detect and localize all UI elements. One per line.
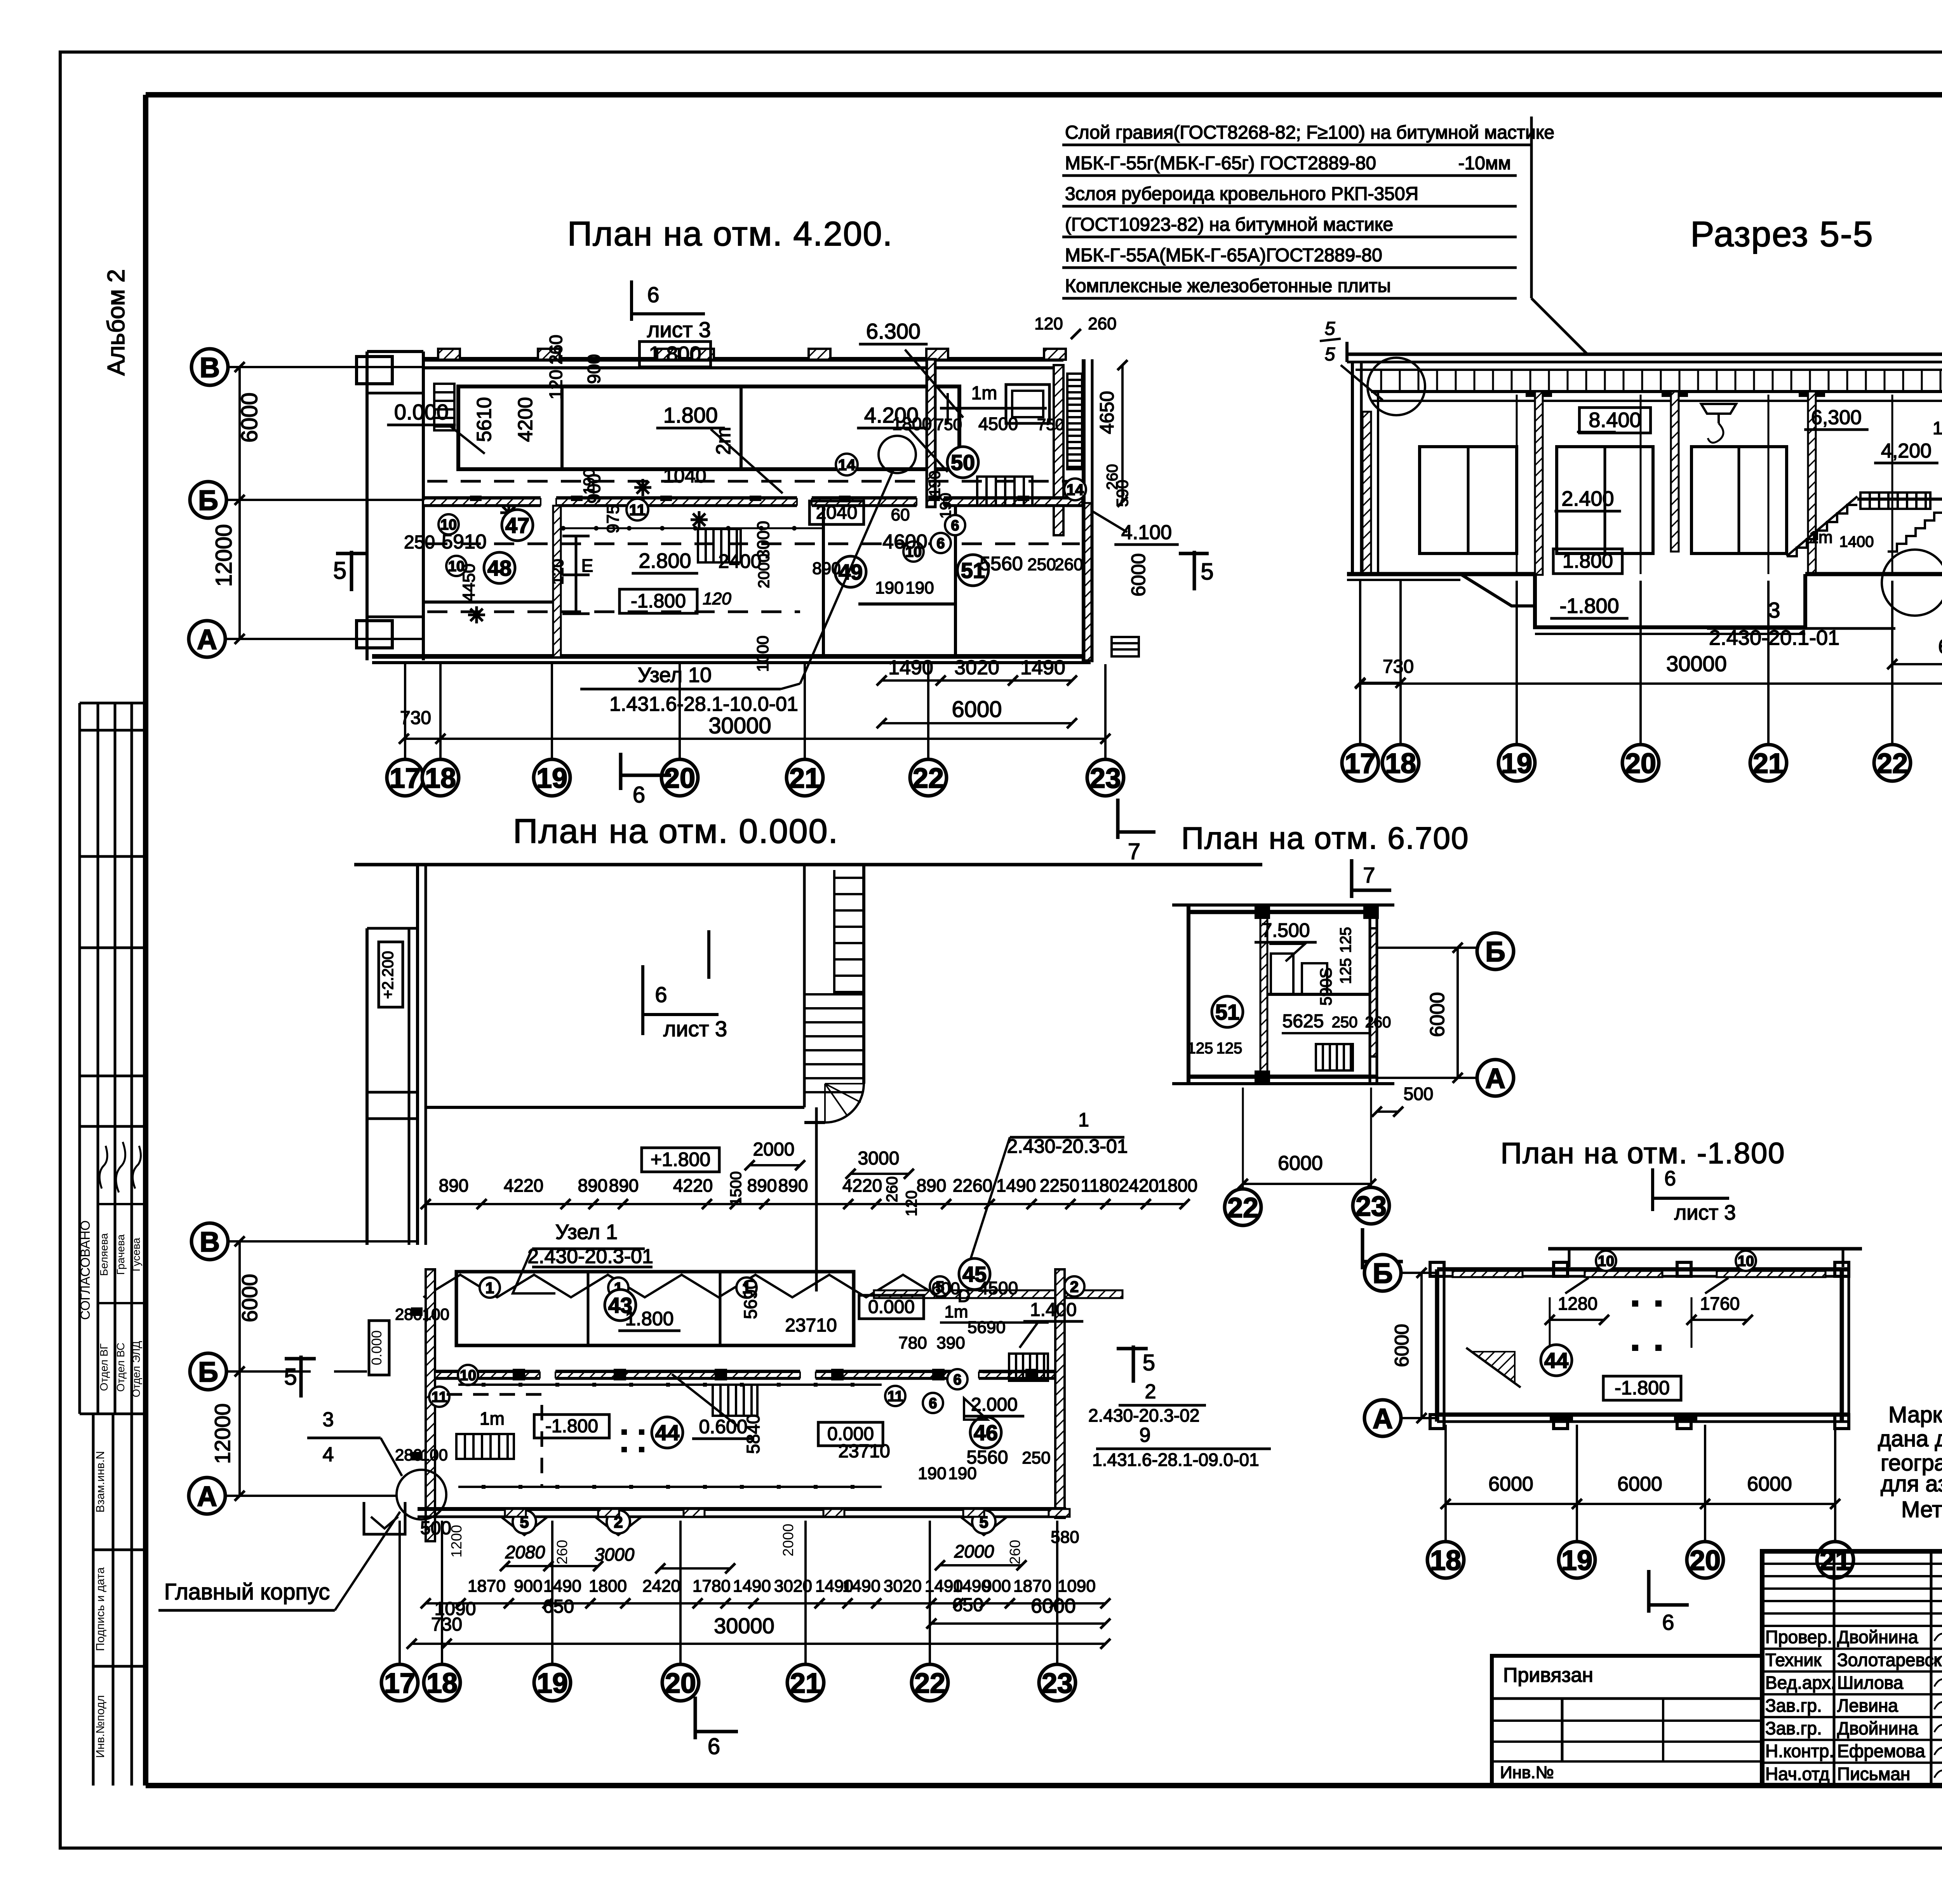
plan 0.000 grid circles (381, 1521, 1075, 1701)
svg-text:12000: 12000 (211, 524, 237, 587)
svg-text:1200: 1200 (449, 1525, 465, 1558)
svg-text:600: 600 (931, 1279, 960, 1298)
plan 4.200 left grid circles (189, 349, 423, 657)
svg-text:4200: 4200 (514, 397, 537, 442)
svg-text:1000: 1000 (753, 635, 772, 672)
svg-text:2.430-20.3-01: 2.430-20.3-01 (527, 1245, 653, 1268)
left stamp lower cells Взам/Подпись/Инв (93, 1414, 146, 1786)
title block left signature table (1762, 1551, 1942, 1786)
svg-text:Н.контр.: Н.контр. (1765, 1741, 1834, 1761)
svg-text:Золотаревская: Золотаревская (1837, 1650, 1942, 1670)
plan 4.200 dotted handrail line (555, 526, 823, 531)
plan -1.800 drawing (1364, 1167, 1862, 1634)
plan 0.000 tank outline (354, 865, 1262, 1245)
svg-text:1490: 1490 (842, 1577, 881, 1596)
svg-text:Б: Б (1373, 1258, 1393, 1289)
svg-text:500: 500 (1404, 1084, 1434, 1104)
svg-text:6: 6 (655, 982, 667, 1007)
svg-text:Комплексные железобетонные пли: Комплексные железобетонные плиты (1065, 276, 1391, 296)
plan 4.200 interior wall right bay (1054, 365, 1063, 535)
svg-text:260: 260 (1055, 555, 1083, 574)
svg-text:5690: 5690 (740, 1279, 760, 1319)
plan 4.200 section mark 5 right (1179, 551, 1214, 590)
svg-text:6.300: 6.300 (866, 319, 921, 343)
svg-text:4220: 4220 (673, 1175, 713, 1196)
svg-text:23710: 23710 (785, 1315, 837, 1336)
plan 6.700 section mark 7 bottom (1363, 1228, 1403, 1291)
plan 4.200 sheet mark лист 3 top (632, 280, 711, 342)
svg-text:План на отм. -1.800: План на отм. -1.800 (1500, 1137, 1785, 1170)
svg-text:6: 6 (929, 1396, 937, 1412)
svg-text:730: 730 (431, 1614, 462, 1635)
svg-text:Главный корпус: Главный корпус (164, 1579, 330, 1605)
plan 4.200 section mark 6 bottom (621, 753, 671, 808)
svg-text:6000: 6000 (237, 392, 262, 442)
svg-text:7: 7 (1363, 863, 1375, 887)
svg-text:Привязан: Привязан (1503, 1664, 1593, 1686)
svg-text:250: 250 (1027, 555, 1056, 574)
svg-text:4.100: 4.100 (1121, 521, 1172, 544)
svg-text:2000: 2000 (755, 554, 773, 588)
svg-text:1.800: 1.800 (1563, 550, 1613, 573)
svg-text:890: 890 (812, 559, 840, 578)
plan -1.800 bottom dims (1441, 1473, 1840, 1509)
plan 0.000 drawing (158, 865, 1271, 1759)
svg-text:100: 100 (422, 1305, 449, 1323)
svg-text:А: А (197, 624, 217, 655)
svg-text:5: 5 (1325, 344, 1335, 365)
plan 4.200 stair ladder right bay (1067, 374, 1082, 469)
svg-text:3слоя рубероида кровельного РК: 3слоя рубероида кровельного РКП-350Я (1065, 184, 1418, 204)
plan 0.000 node 3/4 and Главный корпус (158, 1408, 446, 1610)
svg-text:2000: 2000 (780, 1524, 797, 1557)
svg-text:5610: 5610 (473, 397, 496, 442)
svg-text:1490: 1490 (888, 656, 933, 679)
svg-text:Б: Б (198, 1357, 218, 1388)
svg-text:19: 19 (1501, 748, 1532, 779)
plan 4.200 hatched partition x1430 (553, 506, 561, 657)
svg-text:900: 900 (982, 1577, 1011, 1596)
svg-text:3: 3 (323, 1408, 334, 1431)
svg-text:Левина: Левина (1837, 1695, 1898, 1716)
plan 0.000 node flag Узел 1 (513, 1220, 653, 1293)
svg-text:46: 46 (974, 1420, 998, 1445)
svg-text:-1.800: -1.800 (631, 590, 686, 612)
plan 4.200 left annex (365, 352, 369, 660)
svg-text:+1.800: +1.800 (651, 1149, 710, 1170)
plan 6.700 drawing (1172, 859, 1514, 1291)
svg-text:190: 190 (875, 578, 903, 597)
svg-text:260: 260 (546, 335, 566, 365)
svg-text:22: 22 (1227, 1192, 1258, 1224)
svg-text:4: 4 (323, 1443, 334, 1466)
svg-text:Шилова: Шилова (1837, 1673, 1904, 1693)
svg-text:30000: 30000 (708, 713, 771, 738)
svg-text:2420: 2420 (1119, 1175, 1159, 1196)
svg-text:730: 730 (1383, 656, 1414, 677)
section 5-5 level labels (1550, 406, 1942, 618)
svg-text:Письман: Письман (1837, 1764, 1910, 1784)
svg-text:1490: 1490 (543, 1577, 581, 1596)
svg-text:А: А (197, 1481, 217, 1512)
svg-text:22: 22 (914, 1668, 945, 1699)
svg-text:2.800: 2.800 (639, 549, 691, 573)
plan 4.200 section mark 5 left (333, 551, 367, 591)
svg-text:260: 260 (1088, 314, 1116, 333)
svg-text:7.500: 7.500 (1261, 919, 1310, 941)
svg-text:Отдел ВС: Отдел ВС (115, 1343, 127, 1392)
plan 4.200 stairs and piers (434, 384, 454, 430)
svg-text:Марка кровельной мастики в: Марка кровельной мастики в скобках (см. … (1888, 1402, 1942, 1427)
svg-text:1.800: 1.800 (625, 1308, 673, 1330)
svg-text:Беляева: Беляева (98, 1233, 110, 1276)
plan -1.800 grid circles (1427, 1425, 1853, 1578)
svg-text:4220: 4220 (842, 1175, 882, 1196)
svg-text:100: 100 (421, 1446, 448, 1464)
svg-text:780: 780 (898, 1333, 927, 1352)
svg-text:Нач.отд: Нач.отд (1765, 1764, 1830, 1784)
svg-text:19: 19 (1561, 1545, 1592, 1576)
svg-text:50: 50 (951, 450, 975, 475)
svg-text:Б: Б (198, 485, 218, 516)
plan 0.000 room 44 floor (447, 1374, 890, 1489)
svg-text:1m: 1m (944, 1302, 968, 1321)
svg-text:21: 21 (789, 763, 820, 794)
svg-text:6: 6 (633, 782, 645, 808)
section 5-5 ceiling (1371, 390, 1942, 393)
svg-text:580: 580 (1051, 1528, 1079, 1547)
svg-text:6: 6 (953, 1372, 961, 1388)
section 5-5 cut mark 5/5 (1320, 318, 1383, 400)
svg-text:6: 6 (708, 1734, 720, 1759)
section 5-5 grid circles (1342, 395, 1942, 781)
svg-text:260: 260 (554, 1540, 571, 1564)
svg-text:План на отм. 0.000.: План на отм. 0.000. (513, 812, 839, 850)
svg-text:5690: 5690 (968, 1318, 1006, 1337)
svg-text:5625: 5625 (1282, 1011, 1324, 1032)
svg-text:1m: 1m (971, 383, 997, 404)
svg-text:1.431.6-28.1-10.0-01: 1.431.6-28.1-10.0-01 (609, 693, 798, 715)
svg-text:-1.800: -1.800 (545, 1416, 598, 1436)
svg-text:2250: 2250 (1040, 1175, 1079, 1196)
svg-text:2m: 2m (712, 427, 735, 455)
svg-text:Взам.инв.N: Взам.инв.N (94, 1451, 107, 1513)
plan -1.800 top rail line (1548, 1249, 1862, 1267)
svg-text:Отдел ЭЛД: Отдел ЭЛД (130, 1341, 142, 1397)
svg-text:4500: 4500 (978, 1278, 1018, 1298)
svg-text:6000: 6000 (1747, 1473, 1792, 1495)
svg-text:30000: 30000 (1666, 651, 1727, 676)
plan -1.800 interior labels (1466, 1293, 1753, 1400)
svg-text:0.000: 0.000 (868, 1297, 915, 1317)
small table Привязан (1492, 1656, 1762, 1786)
svg-text:+2.200: +2.200 (379, 951, 397, 999)
svg-text:5: 5 (284, 1364, 297, 1390)
plan 0.000 bottom wall piers (501, 1509, 1070, 1535)
svg-text:2: 2 (1145, 1380, 1156, 1403)
svg-text:1490: 1490 (733, 1577, 771, 1596)
plan 4.200 lamp symbols (468, 479, 708, 623)
svg-text:590S: 590S (1317, 968, 1335, 1006)
svg-text:0.000: 0.000 (369, 1330, 385, 1365)
svg-text:6000: 6000 (1278, 1152, 1323, 1175)
svg-text:190: 190 (918, 1464, 946, 1483)
svg-text:7: 7 (1128, 839, 1140, 864)
svg-text:3000: 3000 (858, 1148, 900, 1169)
svg-text:0.600: 0.600 (699, 1416, 747, 1438)
svg-text:14: 14 (1067, 481, 1084, 498)
svg-text:30000: 30000 (714, 1613, 774, 1638)
plan 6.700 right grid circles (1377, 933, 1514, 1096)
svg-text:11: 11 (629, 501, 646, 519)
svg-text:975: 975 (604, 505, 623, 533)
svg-text:17: 17 (384, 1668, 415, 1699)
svg-text:А: А (1485, 1063, 1505, 1094)
plan -1.800 sheet mark лист 3 (1653, 1167, 1736, 1224)
svg-text:250: 250 (404, 532, 435, 553)
svg-text:17: 17 (1345, 748, 1376, 779)
svg-text:6000: 6000 (1391, 1324, 1413, 1367)
svg-text:Подпись и дата: Подпись и дата (94, 1567, 107, 1651)
svg-text:125: 125 (1337, 927, 1354, 953)
svg-text:44: 44 (1544, 1348, 1568, 1373)
svg-text:2260: 2260 (953, 1175, 992, 1196)
plan 0.000 corridor wall (429, 1365, 1055, 1413)
svg-text:План на отм. 4.200.: План на отм. 4.200. (567, 214, 893, 253)
plan 0.000 tank ladder (804, 870, 864, 1123)
svg-text:18: 18 (425, 763, 456, 794)
svg-text:190: 190 (937, 493, 954, 519)
svg-text:4600: 4600 (882, 531, 927, 553)
svg-text:1180: 1180 (1081, 1175, 1119, 1196)
svg-text:лист 3: лист 3 (647, 317, 711, 342)
svg-text:22: 22 (913, 763, 944, 794)
svg-text:Инв.№подл: Инв.№подл (94, 1695, 107, 1758)
section 5-5 doors (1420, 447, 1517, 553)
svg-text:2080: 2080 (505, 1542, 545, 1562)
svg-text:Вед.арх.: Вед.арх. (1765, 1673, 1836, 1693)
svg-text:1400: 1400 (1839, 533, 1874, 550)
svg-text:10: 10 (460, 1368, 476, 1384)
section 5-5 bottom dims (1355, 635, 1942, 689)
plan 4.200 room number circles (439, 447, 1086, 587)
svg-text:190: 190 (905, 578, 934, 597)
svg-text:9: 9 (1140, 1424, 1151, 1446)
section 5-5 roof (1347, 353, 1942, 356)
svg-text:1m: 1m (480, 1408, 505, 1429)
svg-text:1800: 1800 (1158, 1175, 1197, 1196)
svg-text:дана для районов строительс: дана для районов строительства, располож… (1878, 1426, 1942, 1451)
plan 4.200 partition x2480 (927, 359, 935, 507)
svg-text:730: 730 (400, 708, 431, 728)
plan 0.000 section mark 6 bottom (695, 1697, 738, 1759)
svg-text:6: 6 (1662, 1610, 1674, 1634)
svg-text:4650: 4650 (1096, 391, 1118, 434)
plan 0.000 level label +1.800 (642, 1107, 816, 1291)
svg-text:49: 49 (839, 560, 863, 584)
svg-text:Отдел ВГ: Отдел ВГ (98, 1344, 110, 1391)
svg-text:890: 890 (609, 1175, 639, 1196)
plan 4.200 corridor wall (423, 498, 1082, 506)
plan 0.000 main walls (418, 1269, 1066, 1541)
svg-text:6: 6 (936, 536, 945, 552)
left stamp section СОГЛАСОВАНО (78, 1126, 146, 1414)
svg-text:для азиатской части СССР.: для азиатской части СССР. (1881, 1471, 1942, 1497)
svg-text:4,200: 4,200 (1881, 440, 1932, 462)
svg-text:В: В (200, 1227, 220, 1258)
section 5-5 node circle top-left (1368, 358, 1425, 415)
svg-text:890: 890 (439, 1175, 469, 1196)
plan 0.000 bottom small dims (420, 1518, 1079, 1573)
note about roofing mastic (1878, 1402, 1942, 1497)
svg-text:1490: 1490 (1020, 656, 1065, 679)
svg-text:60: 60 (891, 505, 910, 524)
svg-text:20: 20 (665, 1668, 696, 1699)
plan 4.200 upper rooms (458, 386, 959, 469)
svg-text:1.800: 1.800 (649, 342, 701, 365)
svg-text:120: 120 (550, 559, 567, 585)
svg-text:47: 47 (505, 513, 529, 538)
svg-text:190: 190 (948, 1464, 976, 1483)
title block (1762, 1551, 1942, 1786)
svg-text:11: 11 (887, 1389, 903, 1405)
svg-text:6000: 6000 (1938, 635, 1942, 658)
svg-text:1280: 1280 (1558, 1293, 1597, 1314)
svg-text:190: 190 (581, 469, 598, 495)
svg-text:1870: 1870 (468, 1577, 506, 1596)
plan 4.200 dim row bottom (399, 656, 1110, 744)
svg-text:6: 6 (1664, 1167, 1676, 1190)
svg-text:3020: 3020 (884, 1577, 922, 1596)
svg-text:3000: 3000 (754, 521, 773, 559)
plan 0.000 top right leaders (727, 1109, 1128, 1282)
svg-text:А: А (1373, 1403, 1393, 1434)
svg-text:1760: 1760 (1700, 1293, 1740, 1314)
svg-text:-1.800: -1.800 (1559, 594, 1619, 618)
svg-text:21: 21 (1753, 748, 1784, 779)
plan 0.000 left wall labels (364, 1305, 449, 1534)
svg-text:650: 650 (952, 1595, 983, 1615)
svg-text:лист 3: лист 3 (663, 1016, 727, 1041)
svg-text:20: 20 (664, 763, 695, 794)
svg-text:0.000: 0.000 (394, 400, 449, 424)
svg-text:900: 900 (514, 1577, 542, 1596)
svg-text:Ефремова: Ефремова (1837, 1741, 1925, 1761)
section 5-5 drawing (1320, 299, 1942, 781)
svg-text:12000: 12000 (210, 1403, 235, 1464)
svg-text:1040: 1040 (663, 465, 706, 487)
svg-text:4450: 4450 (459, 564, 479, 602)
section 5-5 left wall (1351, 362, 1354, 575)
svg-text:-1.800: -1.800 (1615, 1377, 1670, 1399)
svg-text:План на отм. 6.700: План на отм. 6.700 (1182, 821, 1469, 855)
left margin stamp strip upper cells (80, 703, 146, 1126)
svg-text:14: 14 (838, 456, 856, 473)
svg-text:Узел 1: Узел 1 (555, 1220, 618, 1244)
svg-text:20: 20 (1625, 748, 1656, 779)
svg-text:Альбом 2: Альбом 2 (103, 269, 130, 376)
svg-text:20: 20 (1690, 1545, 1721, 1576)
svg-text:6: 6 (951, 518, 959, 534)
svg-text:19: 19 (536, 763, 567, 794)
plan 0.000 sawtooth canopy top wall (423, 1275, 1122, 1306)
plan 4.200 section mark 7 bottom right (1118, 799, 1155, 864)
plan 4.200 right wall (1082, 359, 1086, 662)
svg-text:СОГЛАСОВАНО: СОГЛАСОВАНО (78, 1220, 93, 1320)
svg-text:6000: 6000 (1617, 1473, 1662, 1495)
svg-text:48: 48 (487, 556, 512, 580)
section 5-5 crane hook (1701, 404, 1736, 443)
svg-text:Е: Е (581, 555, 593, 576)
svg-text:6000: 6000 (1128, 553, 1149, 596)
svg-text:5910: 5910 (442, 531, 487, 553)
plan 4.200 labels (387, 314, 1179, 672)
svg-text:1m: 1m (1933, 418, 1942, 438)
svg-text:890: 890 (917, 1175, 947, 1196)
svg-text:2.430-20.3-02: 2.430-20.3-02 (1088, 1405, 1199, 1425)
svg-text:21: 21 (790, 1668, 821, 1699)
plan 4.200 drawing (189, 280, 1214, 864)
svg-text:Слой гравия(ГОСТ8268-82; F≥100: Слой гравия(ГОСТ8268-82; F≥100) на битум… (1065, 122, 1554, 143)
svg-text:120: 120 (703, 589, 731, 608)
svg-text:5: 5 (333, 557, 346, 584)
svg-text:Б: Б (1485, 936, 1505, 968)
svg-text:11: 11 (432, 1389, 447, 1406)
svg-text:5: 5 (1143, 1350, 1155, 1375)
plan -1.800 section mark 6 bottom (1649, 1570, 1689, 1634)
svg-text:125: 125 (1187, 1040, 1213, 1057)
section 5-5 node label 3 (1707, 550, 1942, 649)
svg-text:125: 125 (1216, 1040, 1242, 1057)
svg-text:2000: 2000 (753, 1139, 795, 1160)
svg-text:900: 900 (584, 354, 604, 384)
svg-text:890: 890 (747, 1175, 777, 1196)
svg-text:6: 6 (647, 282, 659, 307)
plan 0.000 upper dim row (421, 1175, 1197, 1209)
roof build-up specification block (1062, 117, 1588, 355)
svg-text:23710: 23710 (838, 1441, 890, 1462)
svg-text:120: 120 (1034, 314, 1063, 333)
section 5-5 interior columns (1535, 392, 1543, 575)
svg-text:125: 125 (1337, 958, 1354, 984)
plan 0.000 room 43 strip (456, 1272, 924, 1345)
svg-text:2.430-20.3-01: 2.430-20.3-01 (1007, 1135, 1128, 1157)
svg-text:Узел 10: Узел 10 (638, 663, 712, 687)
plan 0.000 left strip cells (367, 928, 418, 1245)
svg-text:1090: 1090 (1058, 1577, 1096, 1596)
svg-text:250: 250 (1022, 1448, 1050, 1467)
svg-text:2.400: 2.400 (1561, 487, 1614, 510)
svg-text:120: 120 (903, 1190, 920, 1217)
svg-text:260: 260 (1007, 1540, 1023, 1564)
svg-text:1.431.6-28.1-09.0-01: 1.431.6-28.1-09.0-01 (1092, 1450, 1259, 1470)
svg-text:Разрез 5-5: Разрез 5-5 (1690, 214, 1874, 254)
svg-text:1500: 1500 (727, 1171, 745, 1206)
svg-text:1.400: 1.400 (1030, 1300, 1077, 1320)
plan 4.200 bottom wall (372, 654, 1091, 659)
svg-text:500: 500 (420, 1518, 451, 1539)
svg-text:5560: 5560 (980, 553, 1023, 574)
svg-text:260: 260 (884, 1177, 901, 1203)
plan 0.000 left grid circles (189, 1223, 418, 1514)
plan 0.000 rooms 45 46 (898, 1258, 1083, 1483)
svg-text:190: 190 (926, 471, 943, 497)
plan -1.800 corridor hatch wall (1453, 1251, 1825, 1293)
svg-text:19: 19 (537, 1668, 568, 1699)
section 5-5 stairs right (1787, 493, 1942, 575)
section 5-5 floor (1347, 572, 1535, 576)
plan 4.200 top wall (423, 357, 1063, 362)
